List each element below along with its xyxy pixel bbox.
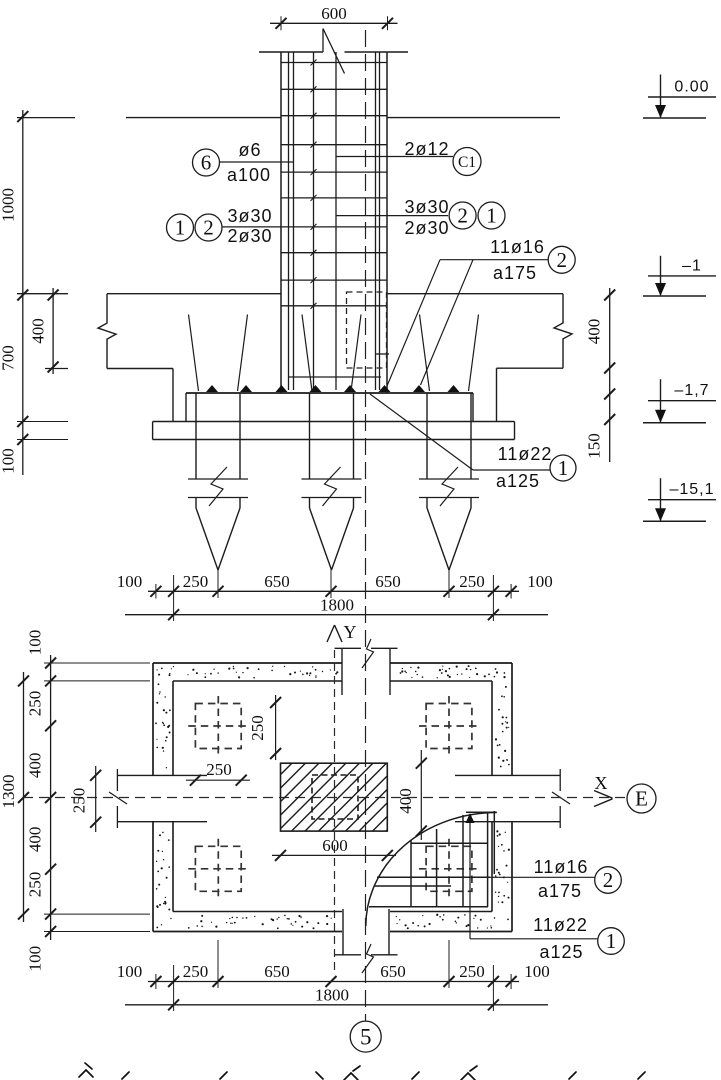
svg-text:100: 100 xyxy=(26,946,45,972)
right dim chain 400 150 xyxy=(585,288,616,462)
concrete speckle texture in band xyxy=(155,665,510,929)
plan label 11o22 a125 circle 1 xyxy=(466,813,625,962)
pile cap top xyxy=(186,393,473,422)
label 11o16 a175 circle 2 with leaders xyxy=(387,237,575,386)
break symbol at column top xyxy=(323,29,345,74)
lean concrete mat xyxy=(153,422,515,440)
svg-text:700: 700 xyxy=(0,345,18,371)
svg-text:ø6: ø6 xyxy=(238,140,261,160)
dim 250 cage width xyxy=(186,760,250,786)
svg-text:1: 1 xyxy=(175,216,186,240)
level -15,1 xyxy=(643,478,716,521)
svg-text:3ø30: 3ø30 xyxy=(404,197,449,217)
svg-text:–15,1: –15,1 xyxy=(669,481,714,498)
pile dowel bars splayed xyxy=(189,315,479,392)
svg-text:1300: 1300 xyxy=(0,775,18,809)
svg-text:1: 1 xyxy=(558,456,569,480)
svg-text:2ø30: 2ø30 xyxy=(404,218,449,238)
svg-text:100: 100 xyxy=(117,962,143,981)
svg-text:650: 650 xyxy=(375,572,401,591)
grade beam top line at level -1 xyxy=(17,293,563,295)
svg-text:400: 400 xyxy=(26,753,45,779)
svg-text:2: 2 xyxy=(556,248,567,272)
grade beam left bottom step xyxy=(45,369,173,422)
piles with breaks and tips xyxy=(188,393,248,570)
plan left beam dim 250 xyxy=(70,766,102,832)
right beam stub xyxy=(455,769,570,828)
bottom beam stub xyxy=(335,909,398,973)
svg-text:1: 1 xyxy=(486,204,497,228)
dim 250 cage height xyxy=(248,695,281,760)
svg-text:250: 250 xyxy=(183,572,209,591)
plan left dim chain inner xyxy=(26,630,150,972)
svg-text:a175: a175 xyxy=(538,881,582,901)
svg-text:650: 650 xyxy=(264,572,290,591)
plan bottom dim row 1 xyxy=(117,962,550,989)
axis X dashed with arrow and circle E xyxy=(23,773,656,813)
svg-text:5: 5 xyxy=(360,1024,372,1049)
extension lines to dim row xyxy=(174,568,494,621)
mat outer boundary xyxy=(153,663,512,932)
pile cage top-right xyxy=(419,696,479,756)
left dim 400 xyxy=(29,288,59,374)
svg-text:2ø30: 2ø30 xyxy=(227,226,272,246)
pile cage bottom-left xyxy=(188,839,248,899)
dim 400 column height in plan xyxy=(396,750,427,840)
plan label 11o16 a175 circle 2 xyxy=(490,857,621,901)
plan bottom dim 1800 xyxy=(125,986,548,1011)
svg-text:650: 650 xyxy=(264,962,290,981)
svg-text:250: 250 xyxy=(206,760,232,779)
pile cage top-left xyxy=(188,696,248,756)
svg-text:a125: a125 xyxy=(539,942,583,962)
pile cage bottom-right xyxy=(419,839,479,899)
column stirrups o6 a100 xyxy=(281,60,387,309)
svg-text:100: 100 xyxy=(0,448,18,474)
top beam stub xyxy=(335,639,398,695)
short tie near anchorage box xyxy=(376,353,389,355)
label o6 a100 circle 6 xyxy=(193,140,294,185)
svg-text:250: 250 xyxy=(70,788,89,814)
extension lines plan bottom xyxy=(174,940,494,1011)
section bottom dim row 1 xyxy=(117,572,553,599)
axis Y arrow and label at top of plan xyxy=(327,622,357,642)
column centerline dashed vertical xyxy=(334,650,336,975)
axis Y dashed centerline full height xyxy=(365,30,367,1021)
left beam stub xyxy=(109,769,207,828)
svg-text:a125: a125 xyxy=(496,471,540,491)
svg-text:–1,7: –1,7 xyxy=(674,382,709,399)
svg-text:600: 600 xyxy=(322,836,348,855)
svg-text:250: 250 xyxy=(183,962,209,981)
caption partially cut at bottom xyxy=(79,1063,645,1080)
circle 5 axis bubble xyxy=(350,1021,381,1052)
level -1,7 xyxy=(643,379,716,423)
svg-text:E: E xyxy=(635,787,648,811)
svg-text:250: 250 xyxy=(26,691,45,717)
svg-text:400: 400 xyxy=(26,827,45,853)
level 0.00 xyxy=(643,75,716,119)
svg-text:650: 650 xyxy=(380,962,406,981)
svg-text:250: 250 xyxy=(459,962,485,981)
svg-text:0.00: 0.00 xyxy=(674,79,709,96)
svg-text:3ø30: 3ø30 xyxy=(227,206,272,226)
svg-text:X: X xyxy=(595,773,608,793)
svg-text:250: 250 xyxy=(248,715,267,741)
svg-text:2: 2 xyxy=(603,868,614,892)
svg-text:150: 150 xyxy=(585,433,604,459)
svg-text:100: 100 xyxy=(26,630,45,656)
svg-text:100: 100 xyxy=(524,962,550,981)
svg-text:600: 600 xyxy=(321,4,347,23)
column cut line top xyxy=(259,51,408,53)
svg-text:400: 400 xyxy=(29,318,48,344)
grade beam left edge with break xyxy=(98,294,116,369)
svg-text:1000: 1000 xyxy=(0,188,18,222)
svg-text:6: 6 xyxy=(201,151,212,175)
svg-text:100: 100 xyxy=(527,572,553,591)
grade beam right edge with break xyxy=(554,294,572,369)
svg-text:400: 400 xyxy=(585,319,604,345)
ground line at 0.00 xyxy=(17,117,560,119)
svg-text:11ø22: 11ø22 xyxy=(533,915,588,935)
svg-text:11ø16: 11ø16 xyxy=(534,857,589,877)
label 11o22 a125 circle 1 with leader xyxy=(370,394,576,491)
svg-text:–1: –1 xyxy=(682,257,702,274)
svg-text:1800: 1800 xyxy=(320,596,354,615)
dim 600 column width in plan xyxy=(272,836,396,861)
svg-text:1: 1 xyxy=(606,929,617,953)
grade beam right bottom step xyxy=(497,368,564,421)
svg-text:250: 250 xyxy=(459,572,485,591)
dashed anchorage box in column xyxy=(347,292,387,368)
mat inner boundary xyxy=(173,681,492,912)
svg-text:C1: C1 xyxy=(458,154,476,171)
label 3o30 2o30 left circles 1 2 xyxy=(167,206,282,246)
label 3o30 2o30 right circles 2 1 xyxy=(336,197,506,238)
svg-text:2: 2 xyxy=(457,204,468,228)
svg-text:a175: a175 xyxy=(493,263,537,283)
svg-text:400: 400 xyxy=(396,788,415,814)
section bottom dim row 1800 xyxy=(125,596,548,621)
level -1 xyxy=(643,256,716,296)
rebar hook triangles on cap top xyxy=(206,385,460,392)
svg-text:1800: 1800 xyxy=(315,986,349,1005)
plan left dim 1300 outer xyxy=(0,672,29,922)
column bottom tie xyxy=(289,376,381,378)
svg-text:2: 2 xyxy=(203,216,214,240)
svg-text:11ø16: 11ø16 xyxy=(490,237,545,257)
svg-text:Y: Y xyxy=(344,622,357,642)
svg-text:100: 100 xyxy=(117,572,143,591)
column edges xyxy=(281,52,387,393)
dimension 600 top xyxy=(270,4,398,30)
rebar grid bottom-right quadrant xyxy=(366,811,497,926)
column longitudinal bars xyxy=(289,52,380,390)
svg-text:250: 250 xyxy=(26,872,45,898)
label 2o12 circle C1 right xyxy=(336,139,482,176)
svg-text:11ø22: 11ø22 xyxy=(498,444,553,464)
svg-text:a100: a100 xyxy=(227,165,271,185)
left dim chain 1000 700 100 xyxy=(0,110,68,475)
